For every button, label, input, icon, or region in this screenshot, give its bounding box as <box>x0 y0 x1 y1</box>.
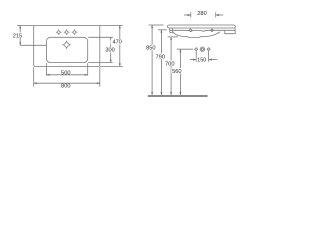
dimension 500 line <box>46 74 87 76</box>
svg-text:560: 560 <box>172 69 182 75</box>
svg-text:280: 280 <box>197 11 207 17</box>
drain outlet cluster: left bolt diamond <box>195 48 198 51</box>
dimension 700 line <box>170 37 172 95</box>
bowl inner outline (top view) <box>46 37 87 62</box>
dimension 800 line <box>34 82 100 84</box>
label 300 <box>105 47 116 53</box>
dimension 150 arrows <box>190 59 196 61</box>
svg-text:300: 300 <box>105 48 114 54</box>
label 790 <box>155 54 166 59</box>
outer edge extension lines down <box>33 67 35 87</box>
fixing hole mark left <box>189 29 192 32</box>
dimension 215 line <box>19 25 21 45</box>
drain outlet circle <box>200 47 204 51</box>
right extension lines (top view) <box>100 24 123 26</box>
svg-text:790: 790 <box>156 54 166 60</box>
extension for 850 <box>149 24 164 26</box>
dimension 300 line <box>110 37 112 62</box>
right bolt diamond <box>207 48 210 51</box>
rear edge extension line (left) <box>17 24 34 26</box>
dimension 470 line <box>119 25 121 66</box>
svg-text:470: 470 <box>112 40 121 46</box>
fixing hole mark right <box>211 29 214 32</box>
dimension 790 line <box>160 30 162 95</box>
svg-text:800: 800 <box>61 84 71 90</box>
dimension 560 line <box>179 49 181 95</box>
label 470 <box>111 39 123 45</box>
washbasin outer rim (top view) <box>34 25 100 66</box>
svg-text:850: 850 <box>146 46 156 52</box>
label 560 <box>171 68 182 73</box>
basin underside line (side view) <box>170 30 236 31</box>
svg-text:215: 215 <box>13 33 23 39</box>
label 280 <box>196 11 207 16</box>
side view rim bar <box>168 25 236 28</box>
bowl bulge silhouette (side view) <box>173 32 220 38</box>
extension for 790 <box>158 29 167 31</box>
extension for 560 <box>177 48 193 50</box>
tap hole right <box>72 29 78 35</box>
svg-text:500: 500 <box>61 71 71 77</box>
wall mounting bracket <box>170 28 173 33</box>
label 850 <box>145 45 156 50</box>
215 extension line to bowl <box>20 44 46 46</box>
tap hole left <box>56 29 62 35</box>
svg-text:150: 150 <box>197 57 206 63</box>
svg-text:700: 700 <box>165 61 175 67</box>
extension for 700 <box>168 36 178 38</box>
front lip tray (side view) <box>225 28 235 34</box>
dimension 850 line <box>151 25 153 95</box>
label 150 <box>197 57 207 62</box>
tap hole middle <box>64 29 70 35</box>
150 extension lines <box>195 51 197 62</box>
overflow / drain mark <box>62 41 70 49</box>
label 215 <box>14 32 23 38</box>
dimension 280 ticks and arrows <box>190 12 192 17</box>
label 700 <box>164 61 175 66</box>
label 800 <box>61 84 71 88</box>
bowl edge extension lines down <box>45 63 47 75</box>
label 500 <box>61 70 71 74</box>
floor line <box>148 95 208 97</box>
